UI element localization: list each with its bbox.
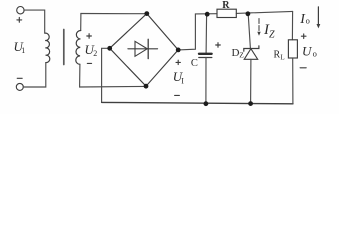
wire left vertex down [102, 48, 110, 102]
svg-text:2: 2 [93, 49, 97, 58]
plus top-left [17, 18, 22, 23]
zener branch top [248, 14, 250, 49]
capacitor plate top [199, 53, 212, 55]
RL lead bottom [292, 58, 294, 104]
svg-text:o: o [306, 15, 310, 25]
minus UI [175, 94, 180, 96]
node bottom bridge [144, 84, 149, 89]
diode cathode bar [147, 39, 149, 58]
node top bridge [144, 11, 149, 16]
svg-text:L: L [280, 54, 284, 62]
terminal top-left [17, 7, 24, 14]
diode lead inside bridge [128, 48, 158, 50]
capacitor branch bottom [205, 58, 207, 104]
node zener bottom [248, 101, 253, 106]
minus U2 [87, 62, 91, 64]
resistor RL box [288, 40, 297, 58]
svg-text:Z: Z [269, 29, 275, 40]
svg-text:R: R [222, 0, 230, 11]
zener diode triangle [244, 49, 258, 60]
zener branch bottom [250, 59, 252, 103]
IZ dashed arrow [258, 19, 260, 31]
capacitor branch top [205, 14, 208, 53]
node zener top [246, 11, 251, 16]
bottom rail [102, 102, 293, 103]
terminal bottom-left [16, 83, 23, 90]
RL lead top [291, 11, 293, 39]
svg-text:Z: Z [239, 51, 244, 60]
wire top-left [24, 10, 45, 33]
plus UI [176, 60, 180, 64]
inductor primary winding [45, 33, 50, 62]
svg-text:o: o [313, 48, 317, 58]
wire top rail right b [236, 11, 292, 13]
IZ arrowhead [257, 32, 260, 36]
svg-text:C: C [191, 58, 198, 69]
resistor R box [217, 9, 236, 17]
node cap bottom [204, 101, 209, 106]
plus Uo [301, 34, 306, 39]
node left bridge [107, 46, 112, 51]
node cap top [205, 12, 210, 17]
zener cathode bar [244, 46, 259, 51]
wire right vertex to top [178, 14, 195, 50]
inductor secondary winding lead [80, 14, 82, 31]
wire bottom-left [23, 63, 46, 87]
svg-text:1: 1 [21, 46, 25, 55]
plus U2 [87, 34, 92, 39]
inductor secondary winding [76, 30, 81, 64]
wire top rail right a [195, 13, 217, 15]
transformer core [63, 30, 65, 65]
Io arrowhead [317, 24, 321, 28]
svg-text:U: U [302, 43, 313, 58]
wire secondary bottom [80, 64, 146, 87]
svg-text:I: I [181, 76, 184, 85]
capacitor plate bottom [199, 57, 212, 59]
diode triangle [135, 41, 147, 56]
Io arrow [317, 7, 319, 25]
minus Uo [300, 67, 306, 69]
plus capacitor [216, 43, 221, 48]
wire top rail left [81, 13, 147, 15]
bridge rectifier diamond [110, 14, 179, 87]
minus bottom-left [17, 77, 22, 79]
node right bridge [176, 48, 181, 53]
